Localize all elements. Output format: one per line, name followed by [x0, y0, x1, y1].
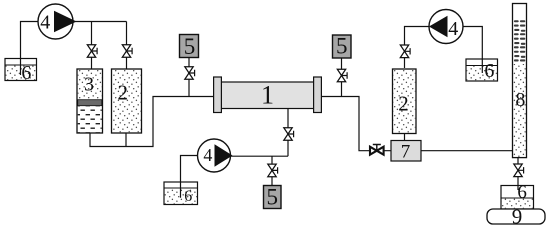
- svg-text:4: 4: [203, 145, 212, 165]
- svg-text:4: 4: [448, 18, 458, 40]
- svg-text:3: 3: [84, 74, 94, 96]
- svg-text:2: 2: [118, 81, 129, 105]
- svg-text:2: 2: [398, 92, 409, 116]
- svg-text:4: 4: [40, 12, 50, 34]
- svg-text:5: 5: [184, 34, 196, 59]
- svg-text:8: 8: [515, 89, 525, 111]
- svg-text:6: 6: [184, 188, 192, 205]
- svg-text:6: 6: [517, 182, 527, 203]
- svg-text:9: 9: [512, 205, 523, 228]
- svg-text:7: 7: [401, 142, 411, 163]
- svg-text:6: 6: [21, 62, 31, 84]
- svg-text:6: 6: [484, 60, 494, 82]
- svg-text:1: 1: [261, 81, 274, 110]
- svg-text:5: 5: [266, 185, 278, 210]
- svg-text:5: 5: [336, 34, 348, 59]
